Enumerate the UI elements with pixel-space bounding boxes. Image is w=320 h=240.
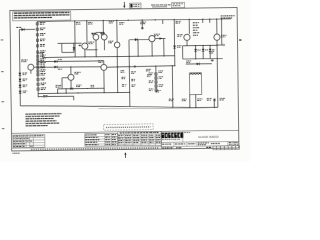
drawing number text (bottom margin) bbox=[12, 153, 20, 154]
label: Q10 type bbox=[74, 71, 80, 74]
label: CR5 value bbox=[22, 72, 27, 75]
transistor Q2 (multivibrator) bbox=[101, 34, 107, 40]
wire: Q10 base stub bbox=[62, 77, 68, 79]
wire: rectifier left leg bbox=[182, 46, 184, 59]
wire: feed x=213 upper bbox=[209, 19, 211, 23]
wire: volume chain end bbox=[156, 91, 157, 92]
resistor R14 (left rail) bbox=[37, 83, 39, 86]
label: CR2 bbox=[58, 58, 62, 61]
label: R7 value bbox=[40, 55, 45, 56]
node: junction on top rail bbox=[174, 19, 175, 20]
transistor Q3 (oscillator) bbox=[28, 64, 34, 70]
label: R1 value bbox=[40, 22, 45, 23]
capacitor C14 blob bbox=[213, 99, 215, 102]
label: R25 values bbox=[131, 83, 135, 86]
label: R6 value bbox=[40, 50, 45, 51]
wire: bus A left riser bbox=[42, 53, 44, 57]
revision box B (top margin) bbox=[172, 2, 185, 7]
wire: Q3 emitter drop bbox=[30, 70, 32, 73]
wire: emitter drop x=164.3 bbox=[163, 38, 165, 55]
resistor R9 (left rail) bbox=[37, 62, 39, 65]
resistor R10 (left rail) bbox=[37, 66, 39, 69]
wire: bias row y=88 bbox=[58, 87, 104, 90]
wire: Q5 collector drop bbox=[151, 42, 153, 56]
label: CR7 value bbox=[23, 84, 28, 87]
label: component list column bbox=[193, 22, 199, 23]
label: tone cluster c bbox=[147, 73, 151, 76]
capacitor C12 blob bbox=[211, 60, 213, 62]
wire: drop x=66 to ground bus bbox=[65, 89, 67, 93]
zone mark (left margin) bbox=[1, 39, 4, 40]
node: Q4 emitter junction bbox=[117, 56, 118, 57]
resistor R7 (left rail) bbox=[37, 55, 39, 58]
wire: bus B drop to Q9 top bbox=[103, 61, 105, 65]
node: junction on top rail bbox=[86, 20, 87, 21]
wire: Q9 emitter drop bbox=[103, 70, 105, 92]
zone mark (left margin) bbox=[1, 101, 4, 102]
transistor Q1 (multivibrator) bbox=[93, 34, 99, 40]
transistor Q9 (audio) bbox=[101, 64, 107, 70]
capacitor C6 blob bbox=[141, 27, 143, 29]
title block: sheet squares row bbox=[213, 146, 217, 150]
wire: T1 secondary right leg bbox=[195, 95, 197, 108]
label: C15 100MFD bbox=[197, 97, 202, 100]
label: R22 values bbox=[121, 76, 125, 79]
label: CR6 value bbox=[23, 78, 28, 81]
approval stamp dashed box bbox=[104, 124, 154, 130]
diode rectifier (down) bbox=[209, 45, 211, 58]
diode CR9 (base feed) bbox=[129, 38, 148, 40]
wire: bus B with CR2 bbox=[38, 60, 104, 63]
wire: bottom supply bus (sagging) bbox=[20, 103, 218, 110]
wire: Q10 emitter drop bbox=[70, 80, 72, 88]
transistor Q10 (audio out) bbox=[68, 74, 74, 80]
wire: base drop x=129/130 bbox=[128, 40, 131, 107]
resistor R13 (left rail) bbox=[37, 78, 39, 81]
label: R5 value bbox=[40, 44, 45, 45]
label: C10 values bbox=[122, 83, 127, 86]
label: CR3 bbox=[58, 68, 62, 71]
wire: Q7 emitter drop bbox=[216, 40, 219, 107]
wire: coupling loop left leg bbox=[61, 43, 63, 52]
wire: rail stub x=163.5 bbox=[162, 20, 164, 24]
wire: feed x=143 bbox=[141, 20, 143, 29]
wire: feed x=190 to Q6 bbox=[188, 19, 190, 33]
manufacturer logo (black block letters) bbox=[161, 132, 183, 138]
wire: T1 secondary left leg bbox=[189, 95, 191, 108]
resistor R1 (left rail) bbox=[36, 23, 38, 26]
node: junction on top rail bbox=[221, 18, 222, 19]
switch contact (open circle) bbox=[134, 66, 136, 68]
label: Q7 type bbox=[221, 34, 227, 37]
label: T1 left value bbox=[182, 98, 187, 101]
node: bus E junctions bbox=[57, 93, 58, 94]
title block: info row cells bbox=[173, 142, 175, 146]
label: rectifier diode bbox=[197, 49, 200, 52]
title block: middle divider line bbox=[161, 141, 238, 142]
label: R18 value bbox=[149, 80, 154, 83]
diode CR6 (left column) bbox=[19, 79, 22, 82]
wire: Q7 collector from rail bbox=[216, 19, 218, 34]
title block: table B cells text bbox=[118, 135, 123, 136]
label: Q1 bbox=[91, 33, 93, 34]
zone mark (left margin) bbox=[1, 71, 4, 72]
diode CR8 (left column) bbox=[19, 91, 22, 94]
title block: right section divider bbox=[160, 131, 162, 149]
label: CR8 value bbox=[23, 90, 28, 93]
wire: bus D (audio line) bbox=[107, 66, 175, 67]
wire: bus C with CR3 bbox=[38, 66, 101, 67]
label: C4 value bbox=[119, 21, 124, 24]
label: R8 value bbox=[40, 58, 45, 59]
label: R6 470K bbox=[76, 21, 80, 24]
voltage notes text block bbox=[25, 113, 61, 115]
label: R14 150 bbox=[76, 84, 81, 87]
label: C6 value bbox=[140, 22, 146, 23]
label: R30 4.7K bbox=[207, 97, 212, 100]
label: R13 value bbox=[41, 78, 46, 79]
label: tone cluster b bbox=[158, 69, 163, 72]
logo underline text bbox=[162, 139, 180, 140]
label: C4 .05 bbox=[43, 94, 48, 97]
diode rectifier (down) bbox=[202, 46, 204, 59]
label: C12 .05 (right) bbox=[209, 50, 214, 53]
revision box A (top margin) bbox=[129, 3, 141, 8]
zone mark (right margin) bbox=[239, 39, 241, 41]
transistor Q8 (control) bbox=[82, 43, 88, 49]
revision note text (top margin) bbox=[151, 4, 156, 7]
wire: coupling loop top bbox=[58, 42, 82, 44]
resistor R17 (volume chain) bbox=[155, 77, 157, 80]
wire: B+ top supply rail bbox=[37, 19, 231, 22]
wire: output stub + terminal bbox=[217, 44, 223, 46]
wire: riser x=57.5 to ground bus bbox=[57, 89, 59, 93]
svg-text:CLOCK RADIO: CLOCK RADIO bbox=[198, 135, 219, 139]
label: R15 value bbox=[91, 84, 95, 87]
label: R10 value bbox=[40, 66, 45, 67]
label: rectifier diode bbox=[205, 48, 208, 51]
label: C13 value bbox=[169, 98, 174, 101]
resistor R3 (left rail) bbox=[36, 34, 38, 37]
transformer T1 (output) bbox=[189, 73, 201, 95]
wire: Q6 emitter drop bbox=[186, 40, 188, 45]
diode CR5 (left column) bbox=[18, 73, 21, 76]
label: C5 .05 bbox=[109, 20, 114, 23]
wire: feed x=117.6 bbox=[116, 20, 118, 42]
capacitor blob at Q8 base bbox=[79, 45, 81, 46]
node: junction on top rail bbox=[142, 19, 143, 20]
wire: Q8 emitter right stub bbox=[86, 49, 97, 51]
label: R3 value bbox=[40, 33, 45, 34]
transistor Q4 (switch) bbox=[114, 42, 120, 48]
label: R14 value bbox=[41, 83, 46, 84]
title block: bottom row text bbox=[162, 147, 173, 148]
label: bus tag (A) bbox=[156, 89, 161, 92]
diode CR1 bbox=[19, 28, 35, 30]
transistor Q5 (driver) bbox=[149, 35, 155, 41]
diode CR8 with resistor bbox=[186, 63, 212, 65]
label: Q9 type bbox=[98, 59, 103, 62]
diode CR11 bbox=[70, 87, 73, 90]
label: R13 / C7 bbox=[56, 84, 62, 87]
resistor R16 (volume chain) bbox=[155, 73, 157, 76]
node: junction on top rail bbox=[209, 19, 210, 20]
wire: Q10 collector riser bbox=[70, 67, 72, 74]
resistor R19 (volume chain) bbox=[155, 85, 157, 88]
title block: left revision table bbox=[13, 135, 45, 148]
wire: stub bus below (L1) bbox=[38, 95, 73, 97]
label: R20 value bbox=[149, 88, 154, 91]
resistor R20 (volume chain) bbox=[155, 89, 157, 92]
wire: divider feed x=75.5 bbox=[74, 21, 76, 57]
node: junction on top rail bbox=[189, 19, 190, 20]
title block: parts table A bbox=[85, 133, 118, 146]
resistor R18 (volume chain) bbox=[155, 81, 157, 84]
wire: anode tap x=138.5 bbox=[137, 40, 139, 57]
title block: parts table A text bbox=[85, 134, 96, 135]
wire: rectifier bottom bus bbox=[183, 57, 223, 60]
wire: drop x=172.5 (C13) bbox=[171, 66, 174, 107]
fold arrow (bottom margin) bbox=[124, 152, 126, 154]
label: R16 value bbox=[149, 72, 154, 75]
wire: Q8 emitter drop bbox=[84, 49, 86, 57]
wire: coupling loop bottom bbox=[62, 51, 74, 53]
label: Q6 type bbox=[177, 33, 182, 36]
wire: Q5 emitter arrow bbox=[155, 37, 165, 39]
label: output terminal (top right) bbox=[221, 15, 235, 16]
node: x=129 junctions bbox=[129, 56, 130, 57]
title block: revision table text bbox=[13, 136, 14, 137]
diode CR4 bbox=[173, 46, 176, 49]
wire: bus A (y=56.4) bbox=[43, 56, 175, 58]
node: junction on top rail bbox=[155, 19, 156, 20]
label: R15 value bbox=[41, 87, 46, 88]
label: R19 value bbox=[159, 83, 164, 86]
wire: coupling loop diode leg bbox=[73, 43, 75, 52]
wire: bus E ground return bbox=[38, 92, 129, 93]
wire: left bias rail (vertical) bbox=[36, 21, 39, 97]
node: junction on top rail bbox=[216, 18, 217, 19]
label: CR4 value bbox=[177, 44, 182, 47]
node: bus D junctions bbox=[117, 66, 118, 67]
transistor Q6 (output) bbox=[184, 34, 190, 40]
resistor R6 (left rail) bbox=[36, 51, 38, 54]
node: bottom bus junctions bbox=[172, 107, 173, 108]
wire: divider feed x=87.5 bbox=[86, 21, 88, 44]
diode CR7 (left column) bbox=[19, 85, 22, 88]
label: R11 value bbox=[40, 69, 45, 70]
label: R27 1.5K bbox=[186, 60, 191, 63]
label: CR1 bbox=[16, 27, 21, 28]
label: R8 4.7K bbox=[88, 21, 93, 24]
label: C9 .05 bbox=[120, 69, 124, 72]
wire: L1 drop stub bbox=[73, 96, 75, 100]
node: junction on top rail bbox=[116, 20, 117, 21]
wire: Q1 emitter drop bbox=[95, 40, 97, 57]
resistor R5 (left rail) bbox=[36, 45, 38, 48]
diode rectifier (down) bbox=[195, 46, 197, 59]
label: R20 values bbox=[176, 20, 181, 23]
wire: feed x=175 bbox=[173, 20, 176, 66]
revision arrow (top margin) bbox=[123, 2, 125, 7]
wire: rectifier top bus bbox=[183, 44, 217, 46]
label: rectifier diode bbox=[212, 48, 215, 51]
wire: Q4 emitter drop bbox=[116, 48, 119, 93]
resistor R11 (left rail) bbox=[37, 70, 39, 73]
wire: Q3 collector stub bbox=[34, 66, 38, 68]
general notes box bbox=[13, 11, 71, 21]
wire: drop x=222.3 bbox=[221, 19, 223, 45]
label: Q5 type bbox=[154, 33, 160, 36]
node: junction on top rail bbox=[202, 19, 203, 20]
title block top line bbox=[11, 130, 238, 133]
label: R24 330 bbox=[131, 70, 136, 73]
label: Q3 type bbox=[21, 58, 28, 61]
resistor R2 (left rail) bbox=[36, 28, 38, 31]
resistor R8 (left rail) bbox=[37, 59, 39, 62]
label: Q8 type bbox=[88, 41, 94, 44]
label: R17 value bbox=[159, 75, 164, 78]
label: C14 100MFD bbox=[220, 97, 225, 100]
diode CR10 (down) bbox=[73, 47, 76, 50]
node: bias row junction bbox=[87, 88, 88, 89]
title block: info row text bbox=[162, 144, 171, 145]
wire: bottom bus ghost line bbox=[98, 107, 210, 109]
label: R2 value bbox=[40, 28, 45, 29]
title block: ruler tick strip bbox=[31, 148, 159, 150]
resistor R4 (left rail) bbox=[36, 39, 38, 42]
wire: collector feed x=104 bbox=[102, 21, 104, 33]
wire: Q2 emitter drop bbox=[103, 40, 105, 50]
label: R12 value bbox=[41, 73, 46, 74]
label: Q4 type bbox=[108, 40, 113, 43]
sheet border frame bbox=[10, 8, 239, 151]
resistor R12 (left rail) bbox=[37, 73, 39, 76]
label: R9 value bbox=[40, 62, 45, 63]
label: R4 value bbox=[40, 39, 45, 40]
label: Q2 bbox=[100, 33, 102, 34]
node: junction on top rail bbox=[128, 20, 129, 21]
wire: drop x=214 capacitor leg bbox=[213, 101, 215, 107]
label: tone cluster a bbox=[146, 68, 151, 71]
title block: transistor table B bbox=[118, 131, 162, 145]
wire: volume chain riser bbox=[155, 66, 157, 91]
zone mark (left margin) bbox=[2, 128, 5, 129]
wire: feed x=203.5 upper bbox=[202, 19, 204, 23]
transistor Q7 (output) bbox=[214, 34, 220, 40]
resistor R15 (left rail) bbox=[37, 88, 39, 91]
node: junction on top rail bbox=[103, 20, 104, 21]
title block: revision table note bbox=[34, 135, 44, 136]
title block: schematic no cell bbox=[182, 131, 184, 142]
node: Q7 emitter junction bbox=[216, 44, 217, 45]
wire: left return line (vertical) bbox=[18, 30, 21, 106]
label: R23 values bbox=[131, 78, 135, 81]
node: bottom bus junctions bbox=[195, 58, 196, 59]
node: rectifier bus junctions bbox=[195, 45, 196, 46]
node: junction on top rail bbox=[74, 20, 75, 21]
title block: table B header text bbox=[120, 132, 159, 134]
